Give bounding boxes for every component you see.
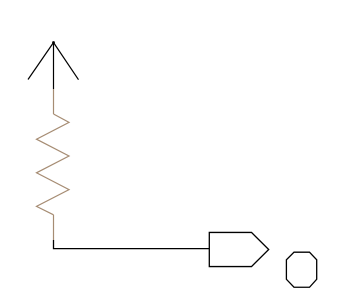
port P1 bbox=[209, 232, 268, 266]
antenna ANT1 bbox=[28, 41, 79, 89]
wire bbox=[54, 240, 210, 249]
resistor R1 bbox=[37, 114, 70, 215]
wire bbox=[53, 215, 55, 240]
node octagon bbox=[286, 252, 316, 287]
wire bbox=[53, 89, 55, 114]
